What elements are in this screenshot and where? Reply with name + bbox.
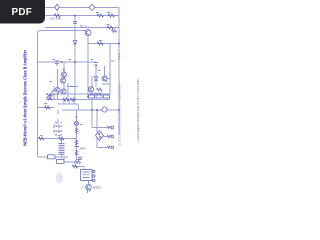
svg-text:BC557: BC557 [93,186,101,190]
svg-text:WEB-MicroP v.3 Most Simple Dis: WEB-MicroP v.3 Most Simple Discrete Clas… [23,50,29,146]
svg-text:1k 10k 4k7: 1k 10k 4k7 [90,92,103,96]
svg-text:Spkr: Spkr [117,52,121,59]
svg-text:12V 1.5A: 12V 1.5A [50,17,61,21]
svg-text:PDF: PDF [11,7,32,18]
svg-text:240V: 240V [80,147,86,151]
svg-text:(C) 1995 Tony van Roon - MOS M: (C) 1995 Tony van Roon - MOS MicroP v1.3… [118,84,122,146]
svg-text:-- Circuit diagram MOSFET Amp: -- Circuit diagram MOSFET Amp v1.3 (C) T… [136,77,140,143]
svg-text:+: + [82,186,84,189]
